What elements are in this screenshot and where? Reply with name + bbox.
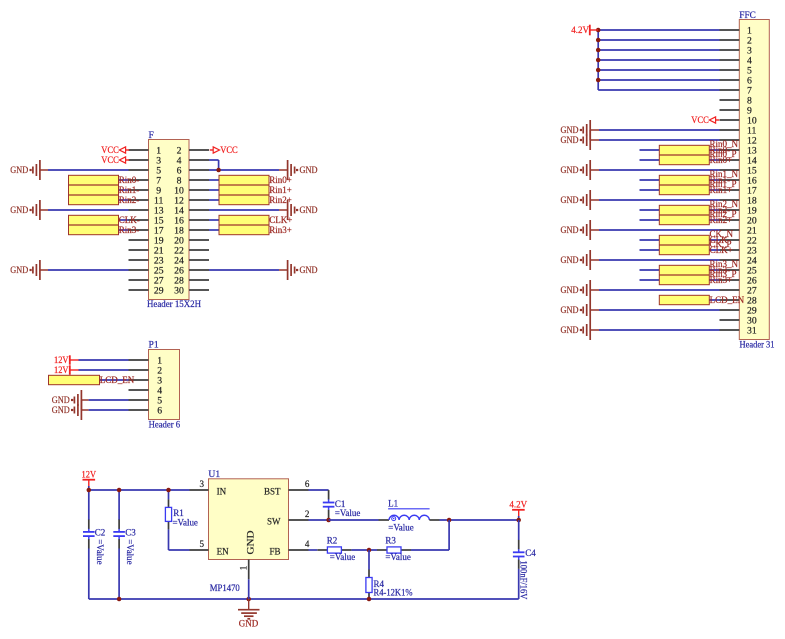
- svg-text:Rin3_P: Rin3_P: [710, 269, 737, 279]
- svg-text:1: 1: [239, 566, 249, 571]
- svg-text:=Value: =Value: [173, 517, 198, 527]
- svg-text:4: 4: [305, 539, 310, 549]
- svg-text:IN: IN: [217, 486, 227, 496]
- svg-text:=Value: =Value: [335, 508, 360, 518]
- svg-text:GND: GND: [561, 135, 579, 145]
- svg-text:BST: BST: [264, 486, 281, 496]
- svg-text:GND: GND: [245, 530, 255, 555]
- svg-text:C4: C4: [525, 548, 536, 558]
- svg-text:C3: C3: [125, 528, 136, 538]
- svg-text:MP1470: MP1470: [210, 583, 240, 593]
- svg-text:F: F: [149, 130, 154, 141]
- svg-text:5: 5: [200, 539, 205, 549]
- svg-text:12V: 12V: [82, 470, 97, 480]
- svg-text:=Value: =Value: [385, 552, 410, 562]
- svg-text:Rin3+: Rin3+: [269, 225, 292, 235]
- svg-text:2: 2: [305, 509, 310, 519]
- svg-text:GND: GND: [561, 325, 579, 335]
- svg-text:31: 31: [747, 326, 757, 337]
- svg-text:GND: GND: [300, 165, 318, 175]
- svg-text:GND: GND: [10, 265, 28, 275]
- svg-text:U1: U1: [208, 469, 220, 480]
- svg-text:Rin1-: Rin1-: [119, 185, 140, 195]
- svg-text:CK_P: CK_P: [710, 239, 732, 249]
- svg-text:VCC: VCC: [101, 145, 119, 155]
- svg-text:GND: GND: [561, 125, 579, 135]
- svg-text:Rin2_P: Rin2_P: [710, 209, 737, 219]
- svg-text:=Value: =Value: [330, 552, 355, 562]
- svg-text:VCC: VCC: [691, 115, 709, 125]
- svg-text:R3: R3: [385, 535, 396, 545]
- svg-text:CLK-: CLK-: [119, 215, 140, 225]
- svg-text:Rin2+: Rin2+: [269, 195, 292, 205]
- svg-text:12V: 12V: [54, 365, 69, 375]
- svg-text:6: 6: [157, 406, 162, 417]
- svg-text:Rin2-: Rin2-: [119, 195, 140, 205]
- svg-text:4.2V: 4.2V: [571, 25, 589, 35]
- svg-text:Rin0_N: Rin0_N: [710, 139, 739, 149]
- svg-text:EN: EN: [217, 546, 229, 556]
- svg-text:=Value: =Value: [388, 523, 413, 533]
- svg-text:GND: GND: [561, 305, 579, 315]
- svg-text:Header 31: Header 31: [740, 339, 775, 349]
- svg-text:VCC: VCC: [220, 145, 238, 155]
- svg-text:30: 30: [174, 286, 184, 297]
- svg-text:Rin0-: Rin0-: [119, 175, 140, 185]
- svg-text:6: 6: [305, 479, 310, 489]
- svg-text:GND: GND: [561, 285, 579, 295]
- svg-text:12V: 12V: [54, 355, 69, 365]
- svg-text:CLK+: CLK+: [269, 215, 292, 225]
- svg-text:Rin1+: Rin1+: [269, 185, 292, 195]
- svg-text:GND: GND: [10, 165, 28, 175]
- svg-text:=Value: =Value: [125, 539, 135, 564]
- svg-text:4.2V: 4.2V: [509, 499, 527, 509]
- svg-text:Rin1_N: Rin1_N: [710, 169, 739, 179]
- svg-text:GND: GND: [300, 205, 318, 215]
- svg-text:Rin3_N: Rin3_N: [710, 259, 739, 269]
- svg-text:LCD_EN: LCD_EN: [710, 295, 745, 305]
- svg-text:LCD_EN: LCD_EN: [100, 375, 135, 385]
- svg-text:=Value: =Value: [95, 539, 105, 564]
- svg-text:GND: GND: [10, 205, 28, 215]
- svg-text:R2: R2: [327, 535, 338, 545]
- svg-text:Rin0+: Rin0+: [269, 175, 292, 185]
- svg-text:SW: SW: [267, 516, 281, 526]
- svg-text:GND: GND: [561, 225, 579, 235]
- svg-text:CK_N: CK_N: [710, 229, 734, 239]
- svg-text:GND: GND: [300, 265, 318, 275]
- svg-text:100nF/16V: 100nF/16V: [519, 561, 529, 600]
- svg-text:GND: GND: [561, 195, 579, 205]
- svg-text:3: 3: [200, 479, 205, 489]
- svg-text:GND: GND: [239, 618, 259, 628]
- svg-text:P1: P1: [149, 340, 159, 351]
- svg-text:Header 15X2H: Header 15X2H: [147, 299, 201, 309]
- svg-text:Rin2_N: Rin2_N: [710, 199, 739, 209]
- svg-text:Rin3-: Rin3-: [119, 225, 140, 235]
- svg-text:VCC: VCC: [101, 155, 119, 165]
- svg-text:FB: FB: [269, 546, 280, 556]
- svg-text:FFC: FFC: [739, 10, 756, 21]
- svg-text:GND: GND: [561, 255, 579, 265]
- svg-text:Rin0_P: Rin0_P: [710, 149, 737, 159]
- svg-text:GND: GND: [52, 395, 70, 405]
- svg-text:29: 29: [154, 286, 164, 297]
- svg-text:GND: GND: [52, 405, 70, 415]
- svg-text:GND: GND: [561, 165, 579, 175]
- svg-text:R4-12K1%: R4-12K1%: [374, 588, 413, 598]
- svg-text:Header 6: Header 6: [149, 420, 181, 430]
- svg-text:C2: C2: [95, 528, 106, 538]
- svg-text:L1: L1: [388, 498, 398, 508]
- svg-text:Rin1_P: Rin1_P: [710, 179, 737, 189]
